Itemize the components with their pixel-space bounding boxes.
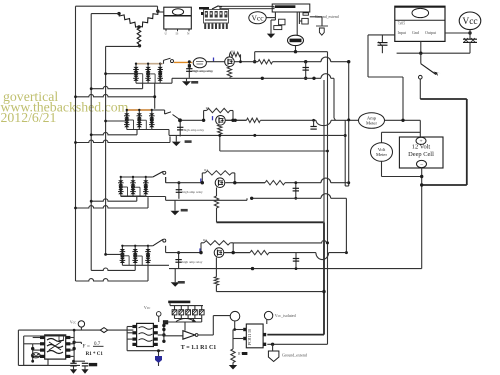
svg-text:high amp relay: high amp relay: [184, 128, 205, 132]
svg-text:Gnd: Gnd: [412, 30, 419, 35]
svg-text:R?: R?: [231, 49, 235, 53]
svg-text:high amp relay: high amp relay: [192, 69, 213, 73]
svg-text:12 Volt: 12 Volt: [412, 144, 431, 151]
svg-text:Vcc: Vcc: [462, 17, 477, 27]
svg-text:R?: R?: [204, 168, 208, 172]
svg-text:high amp relay: high amp relay: [182, 190, 203, 194]
svg-text:Ground_extend: Ground_extend: [315, 15, 339, 19]
svg-text:PC811 I0: PC811 I0: [247, 328, 252, 345]
svg-text:I3: I3: [176, 32, 179, 36]
svg-text:Vcc: Vcc: [251, 14, 264, 23]
svg-text:F =: F =: [83, 344, 90, 350]
svg-text:7x05: 7x05: [398, 22, 406, 26]
svg-text:T = 1.1 R1 C1: T = 1.1 R1 C1: [181, 345, 216, 351]
svg-text:high amp relay: high amp relay: [182, 260, 203, 264]
svg-text:Meter: Meter: [376, 152, 387, 157]
svg-text:Deep Cell: Deep Cell: [408, 151, 434, 158]
svg-text:Input: Input: [398, 30, 407, 35]
svg-text:Meter: Meter: [366, 121, 377, 126]
svg-text:R?: R?: [206, 106, 210, 110]
svg-text:Vcc_isolated: Vcc_isolated: [275, 313, 296, 318]
svg-text:Output: Output: [425, 30, 437, 35]
svg-text:R?: R?: [203, 238, 207, 242]
svg-text:Ground_extend: Ground_extend: [282, 352, 307, 357]
svg-text:−: −: [420, 162, 423, 168]
svg-text:Vcc: Vcc: [144, 305, 151, 310]
svg-text:R?: R?: [238, 352, 242, 356]
svg-text:R1 * C1: R1 * C1: [86, 352, 104, 357]
svg-text:2012/6/21: 2012/6/21: [1, 110, 57, 125]
svg-text:Vcc: Vcc: [70, 320, 76, 324]
